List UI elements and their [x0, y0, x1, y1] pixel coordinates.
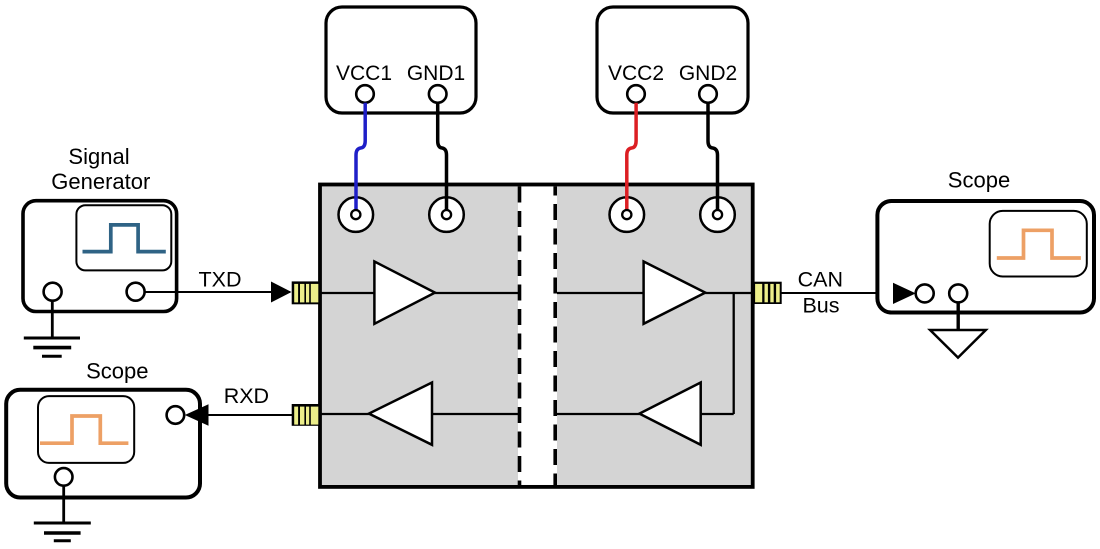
banana jack J1 inner — [351, 210, 360, 219]
ground symbol G2 — [34, 486, 91, 541]
wire U1A to barrier — [435, 292, 518, 294]
scope lower-left ground terminal — [55, 468, 73, 486]
arrowhead TXD — [271, 282, 292, 303]
terminal GND1 — [429, 85, 447, 103]
svg-text:GND1: GND1 — [407, 62, 465, 85]
isolation barrier white gap — [518, 187, 557, 485]
svg-text:Scope: Scope — [86, 358, 148, 383]
terminal VCC1 — [356, 85, 374, 103]
signal generator screen — [76, 205, 171, 270]
svg-text:CAN: CAN — [798, 267, 843, 291]
wire GND1 black — [438, 103, 447, 212]
banana jack J3 outer — [610, 197, 645, 232]
scope right screen — [990, 211, 1087, 277]
banana jack J1 outer — [339, 197, 374, 232]
connector RXD — [292, 404, 321, 426]
scope lower-left input terminal — [167, 406, 185, 424]
EVM board body — [320, 185, 753, 487]
ground symbol G1 — [24, 301, 80, 357]
buffer U2A — [644, 262, 706, 324]
wire feedback vertical — [733, 293, 735, 414]
buffer U1A — [374, 262, 435, 324]
ground symbol G3 — [930, 302, 986, 357]
wire U1B to left edge — [320, 413, 369, 415]
connector CAN — [752, 282, 782, 304]
svg-text:Generator: Generator — [51, 169, 150, 194]
connector TXD — [292, 281, 321, 304]
terminal GND2 — [699, 85, 717, 103]
svg-text:RXD: RXD — [224, 384, 269, 408]
wire TXD external — [145, 291, 290, 293]
terminal VCC2 — [627, 85, 645, 103]
svg-text:VCC2: VCC2 — [608, 62, 664, 85]
banana jack J4 inner — [713, 210, 722, 219]
signal generator terminal left — [44, 283, 62, 301]
svg-text:Scope: Scope — [948, 167, 1010, 192]
wire barrier to U2A — [557, 292, 644, 294]
svg-text:VCC1: VCC1 — [336, 62, 392, 85]
EVM board border — [320, 185, 753, 487]
banana jack J4 outer — [700, 197, 735, 232]
power supply PS2 box — [597, 7, 748, 113]
signal generator pulse waveform — [83, 225, 166, 252]
scope right ground terminal — [949, 284, 967, 302]
scope lower-left box — [6, 390, 200, 498]
svg-text:TXD: TXD — [199, 267, 242, 291]
signal generator terminal right — [127, 283, 145, 301]
wire U2B to barrier — [557, 413, 639, 415]
scope lower-left screen — [38, 396, 134, 463]
wire barrier to U1B — [432, 413, 518, 415]
isolation barrier dashed line right — [553, 187, 557, 486]
banana jack J2 outer — [429, 197, 464, 232]
wire GND2 black — [708, 103, 718, 212]
arrowhead CAN — [893, 283, 916, 304]
power supply PS1 box — [326, 7, 476, 113]
scope right input terminal — [916, 284, 934, 302]
wire VCC2 red — [627, 103, 636, 212]
wire RXD external — [208, 414, 292, 416]
wire feedback to U2B — [701, 413, 734, 415]
scope right box — [877, 201, 1094, 313]
buffer U2B — [639, 383, 700, 445]
buffer U1B — [369, 383, 432, 445]
scope lower-left pulse waveform — [40, 416, 128, 443]
banana jack J3 inner — [622, 210, 631, 219]
svg-text:Signal: Signal — [68, 144, 129, 169]
isolation barrier dashed line left — [518, 187, 522, 486]
svg-text:GND2: GND2 — [679, 62, 737, 85]
svg-text:Bus: Bus — [802, 293, 839, 317]
signal generator box — [23, 201, 177, 312]
banana jack J2 inner — [442, 210, 451, 219]
wire U2A to right edge — [705, 292, 752, 294]
arrowhead RXD — [185, 404, 209, 425]
wire VCC1 blue — [356, 103, 365, 212]
wire CAN external — [781, 292, 894, 294]
scope right pulse waveform — [997, 230, 1081, 258]
wire TXD inside left — [320, 292, 374, 294]
